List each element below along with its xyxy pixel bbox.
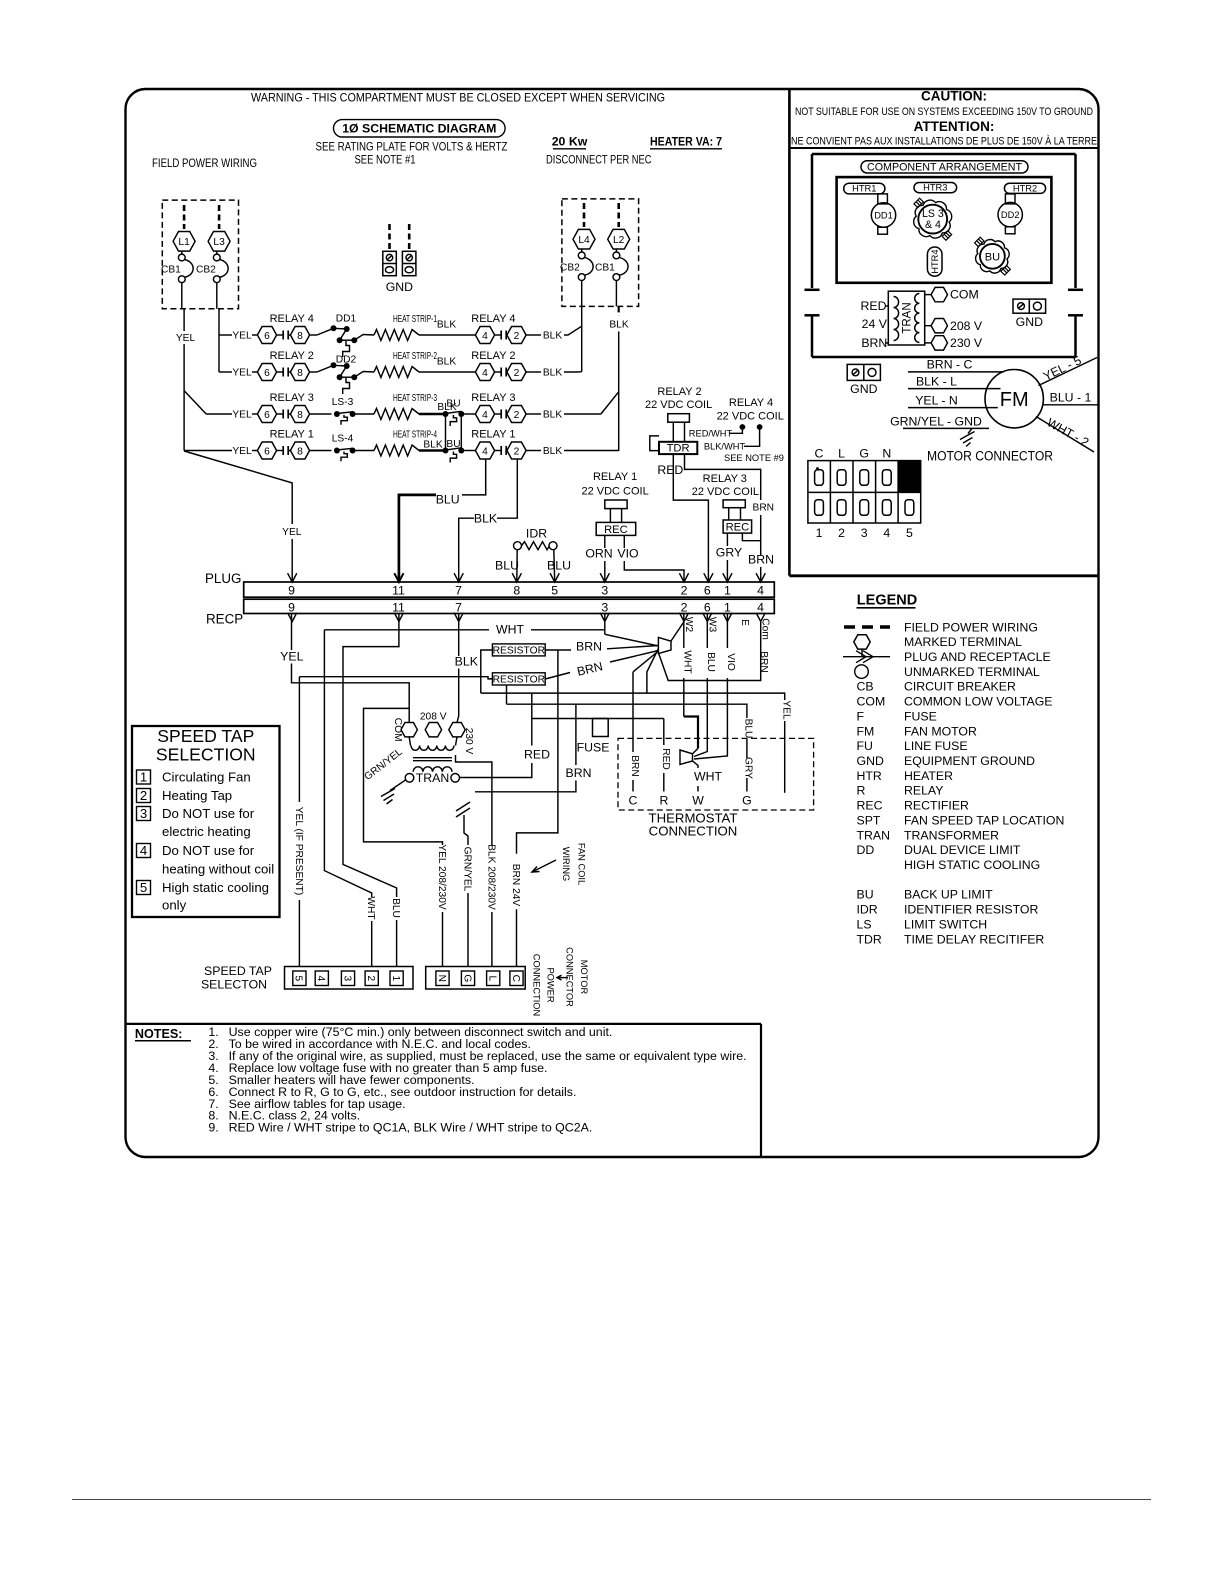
wire GRN/YEL to power connector G [463,815,465,827]
splice connector wedge [658,637,671,653]
svg-text:7: 7 [455,584,462,598]
svg-text:2: 2 [681,601,688,615]
wire [219,371,232,373]
svg-text:G: G [859,447,869,461]
component arrangement bracket box [805,154,1084,357]
svg-text:BLU - 1: BLU - 1 [1050,390,1092,404]
svg-text:ORN: ORN [585,547,612,561]
svg-text:NE CONVIENT PAS AUX INSTALLATI: NE CONVIENT PAS AUX INSTALLATIONS DE PLU… [791,135,1097,148]
svg-text:FM: FM [857,724,875,738]
svg-text:6: 6 [704,584,711,598]
svg-text:RELAY 1: RELAY 1 [270,429,314,441]
svg-text:BLU: BLU [495,559,519,573]
wire WHT - 2 [1036,417,1094,453]
svg-text:GRN/YEL - GND: GRN/YEL - GND [890,414,982,428]
dual device limit DD2 [1005,194,1015,204]
svg-text:4: 4 [315,975,326,981]
svg-text:5: 5 [293,975,304,981]
svg-text:WHT: WHT [681,650,692,673]
circuit breaker CB2 [213,254,220,261]
terminal 8 [290,364,309,381]
wire WHT from pin3 line to speed tap 2 [324,630,371,897]
wire YEL from recp 9 [291,614,293,651]
svg-text:COMMON LOW VOLTAGE: COMMON LOW VOLTAGE [904,695,1052,709]
svg-text:& 4: & 4 [925,219,941,231]
svg-text:FAN MOTOR: FAN MOTOR [904,724,977,738]
resistor block 2 [492,673,545,685]
circuit breaker CB1 [178,254,185,261]
svg-text:EQUIPMENT GROUND: EQUIPMENT GROUND [904,754,1035,768]
svg-text:YEL: YEL [232,446,252,457]
svg-text:RELAY 4: RELAY 4 [729,397,773,409]
svg-text:WARNING - THIS COMPARTMENT MUS: WARNING - THIS COMPARTMENT MUST BE CLOSE… [251,91,665,105]
svg-text:4: 4 [482,410,488,421]
svg-text:POWER: POWER [546,967,556,1002]
svg-text:BLU: BLU [705,652,716,672]
svg-text:RED: RED [660,748,671,770]
wire diagonal to relay 3 right [601,392,619,414]
svg-text:Do NOT use for: Do NOT use for [162,843,255,858]
wire com/brn from recp 4 to splice [659,622,761,681]
svg-text:BLK: BLK [543,331,562,342]
wire [219,334,232,336]
terminal 6 [257,442,276,459]
svg-text:4: 4 [757,584,764,598]
recp outgoing arrows [288,613,297,622]
svg-text:208 V: 208 V [420,712,447,723]
svg-text:20 Kw: 20 Kw [552,135,588,149]
svg-text:RELAY 1: RELAY 1 [471,429,515,441]
svg-text:IDR: IDR [526,527,547,541]
rectifier REC (relay 3) [723,520,752,533]
svg-text:RELAY 1: RELAY 1 [593,471,637,483]
wire diagonal pin3 to splice [605,634,659,646]
svg-text:3: 3 [861,526,868,540]
svg-text:BLK: BLK [543,368,562,379]
svg-text:FAN SPEED TAP LOCATION: FAN SPEED TAP LOCATION [904,813,1064,827]
svg-text:8: 8 [297,410,303,421]
terminal 2 [507,406,526,423]
svg-text:4: 4 [883,526,890,540]
svg-text:R: R [660,793,669,807]
relay row RELAY 4 (heat strip 1) [219,313,562,357]
svg-text:WIRING: WIRING [561,847,571,882]
svg-text:RESISTOR: RESISTOR [493,675,545,686]
svg-text:GRY: GRY [716,546,742,560]
svg-text:HEATER: HEATER [904,769,953,783]
svg-text:only: only [162,898,187,913]
RIGHT PANEL [791,89,1098,540]
svg-text:L4: L4 [578,235,590,246]
wire ORN to plug 3 [604,535,606,548]
svg-text:UNMARKED TERMINAL: UNMARKED TERMINAL [904,665,1040,679]
wire diagonal to plug 9 [184,451,292,524]
svg-text:MOTOR CONNECTOR: MOTOR CONNECTOR [927,449,1053,464]
svg-text:BRN: BRN [861,336,887,350]
svg-text:1: 1 [140,769,147,784]
wire relay4 row to right bus [564,326,582,335]
svg-text:DD: DD [857,843,875,857]
svg-text:CIRCUIT BREAKER: CIRCUIT BREAKER [904,680,1016,694]
svg-text:HIGH STATIC COOLING: HIGH STATIC COOLING [904,858,1040,872]
svg-text:N: N [436,975,447,982]
wire relay2 row to right bus [564,371,582,373]
relay row RELAY 3 (heat strip 3) [206,392,562,451]
svg-text:1Ø SCHEMATIC DIAGRAM: 1Ø SCHEMATIC DIAGRAM [342,121,496,135]
circuit breaker CB1 right [613,252,620,259]
svg-text:PLUG: PLUG [205,571,241,586]
svg-text:GND: GND [850,382,877,396]
terminal 6 [257,327,276,344]
time delay rectifier TDR [650,436,659,451]
svg-text:BLK: BLK [543,410,562,421]
svg-text:HEAT STRIP-2: HEAT STRIP-2 [393,351,437,362]
svg-text:6: 6 [264,410,270,421]
wire BLU from recp 11 to speed tap 1 [343,614,399,898]
gnd terminal block 2 [402,251,416,275]
svg-text:5: 5 [140,880,147,895]
wire [184,450,232,452]
svg-text:22 VDC COIL: 22 VDC COIL [717,411,784,423]
svg-text:G: G [742,793,752,807]
wire GRY to plug 1 [726,533,728,546]
svg-text:TIME DELAY RECITIFER: TIME DELAY RECITIFER [904,932,1044,946]
svg-text:L1: L1 [178,237,190,248]
wire bus to YEL right [481,693,785,700]
ground terminal pair upper [1013,299,1046,313]
svg-text:YEL - N: YEL - N [915,393,958,407]
component layout box [837,177,1052,283]
wire relay3 row to BLK bus [564,413,601,415]
svg-text:PLUG AND RECEPTACLE: PLUG AND RECEPTACLE [904,650,1051,664]
terminal L [487,971,500,986]
terminal 230 V [925,342,931,344]
terminal 8 [290,406,309,423]
svg-text:E: E [739,619,750,626]
receptacle strip [244,599,775,613]
svg-text:Circulating Fan: Circulating Fan [162,769,251,784]
heater HTR4 [927,247,942,276]
relay contact right [495,334,502,336]
svg-text:3: 3 [601,601,608,615]
svg-text:9: 9 [288,601,295,615]
svg-text:BLU: BLU [436,492,460,506]
svg-text:24 V: 24 V [862,317,888,331]
svg-text:6: 6 [264,331,270,342]
svg-text:FU: FU [857,739,873,753]
svg-text:RED Wire / WHT stripe to QC1A,: RED Wire / WHT stripe to QC1A, BLK Wire … [229,1121,593,1135]
field wire stub L4 [583,203,586,227]
terminal COM [925,294,931,296]
BLK field wire from CB1 right [618,306,620,316]
svg-text:YEL: YEL [282,527,302,538]
limit switch LS 3 & 4 [914,200,952,238]
svg-text:SELECTON: SELECTON [201,978,267,992]
wire CB2 bus down to relay rows 1-2 [218,309,220,372]
plug pin numbers [288,584,764,598]
wire RED from TRAN to fuse bus [460,763,532,778]
svg-text:RED: RED [657,463,683,477]
terminal 4 [475,442,494,459]
wire BRN from TRAN [575,704,577,765]
svg-text:2: 2 [838,526,845,540]
svg-text:RELAY 2: RELAY 2 [471,350,515,362]
terminal 6 [257,406,276,423]
tap terminal 4 [315,971,328,986]
svg-text:2: 2 [140,788,147,803]
svg-text:W: W [692,793,704,807]
back up limit BU [976,240,1010,274]
svg-text:4: 4 [482,331,488,342]
svg-text:BLK: BLK [437,320,456,331]
terminal 2 [507,327,526,344]
svg-text:NOTES:: NOTES: [135,1027,183,1041]
wire WHT from recp 3 [604,614,606,635]
svg-text:BLK: BLK [609,320,628,331]
svg-text:IDR: IDR [857,903,878,917]
svg-text:22 VDC COIL: 22 VDC COIL [581,485,648,497]
terminal 2 [507,442,526,459]
svg-text:DISCONNECT PER NEC: DISCONNECT PER NEC [546,153,652,167]
svg-text:4: 4 [482,446,488,457]
svg-text:WHT: WHT [496,623,524,637]
svg-text:CB1: CB1 [161,265,181,276]
wire BLU to plug 5 [553,550,556,581]
svg-text:RELAY 2: RELAY 2 [270,350,314,362]
heater HTR1 [844,183,885,194]
svg-text:3: 3 [601,584,608,598]
schematic stadium [334,120,506,137]
relay row RELAY 1 (heat strip 4) [184,429,562,463]
svg-text:C: C [629,793,638,807]
svg-text:HEAT STRIP-3: HEAT STRIP-3 [393,393,437,404]
svg-text:GND: GND [857,754,884,768]
wire bus to G [507,704,747,718]
terminal 4 [475,364,494,381]
svg-text:CB2: CB2 [196,265,216,276]
svg-text:YEL: YEL [280,649,303,663]
relay contact [277,371,284,373]
caution panel bottom border [789,574,1098,577]
tap terminal 5 [293,971,306,986]
svg-text:F: F [857,709,865,723]
svg-text:RELAY 3: RELAY 3 [270,392,314,404]
svg-text:4: 4 [482,368,488,379]
circuit breaker CB2 right [578,252,585,259]
svg-text:BRN: BRN [753,503,775,514]
svg-text:GRY: GRY [743,757,754,779]
svg-text:COM: COM [950,288,979,302]
svg-text:208 V: 208 V [950,319,983,333]
svg-text:TRAN: TRAN [416,771,449,785]
terminal L4 [573,229,595,249]
ground terminal pair lower [847,364,880,380]
left YEL bus from CB1 [183,309,185,331]
svg-text:TRAN: TRAN [857,828,890,842]
svg-text:BLK/WHT: BLK/WHT [704,442,746,452]
svg-text:DUAL DEVICE LIMIT: DUAL DEVICE LIMIT [904,843,1021,857]
wire COM tap to YEL [299,683,409,723]
svg-text:G: G [461,974,472,982]
svg-text:22 VDC COIL: 22 VDC COIL [645,399,712,411]
svg-text:VIO: VIO [617,547,638,561]
component arrangement stadium [861,161,1028,173]
wire from splice down [647,649,659,694]
tap terminal 3 [341,971,354,986]
svg-text:MOTOR: MOTOR [579,960,589,995]
terminal N [436,971,449,986]
svg-text:N: N [882,447,891,461]
svg-text:1: 1 [816,526,823,540]
wire BLK 208/230V to power connector L [456,755,492,845]
svg-text:BLK: BLK [474,511,498,525]
svg-text:BU: BU [985,251,1000,263]
svg-text:SEE RATING PLATE FOR VOLTS & H: SEE RATING PLATE FOR VOLTS & HERTZ [316,140,508,154]
svg-text:REC: REC [857,799,883,813]
svg-text:COMPONENT ARRANGEMENT: COMPONENT ARRANGEMENT [867,161,1022,173]
svg-text:COM: COM [857,695,886,709]
svg-text:YEL: YEL [781,700,792,720]
svg-text:YEL: YEL [232,368,252,379]
svg-text:9: 9 [288,584,295,598]
svg-text:BLK: BLK [543,446,562,457]
svg-text:BLK 208/230V: BLK 208/230V [485,844,496,910]
svg-text:BRN: BRN [758,651,769,673]
svg-text:CB: CB [857,680,874,694]
svg-text:NOT SUITABLE FOR USE ON SYSTEM: NOT SUITABLE FOR USE ON SYSTEMS EXCEEDIN… [795,106,1093,118]
svg-text:LS: LS [857,917,872,931]
dual device limit DD1 [878,194,888,204]
svg-text:HTR3: HTR3 [923,183,947,193]
svg-text:1: 1 [724,584,731,598]
primary coil [411,746,454,751]
tap terminal 2 [365,971,378,986]
wire BLU to plug 8 [516,550,518,581]
svg-text:REC: REC [726,522,750,534]
svg-text:1: 1 [390,975,401,981]
svg-text:BRN 24V: BRN 24V [510,864,521,907]
svg-text:HTR1: HTR1 [852,184,876,194]
terminal C [510,971,523,986]
field power wiring symbol [844,625,890,628]
svg-text:8: 8 [513,584,520,598]
svg-text:RELAY 3: RELAY 3 [703,473,747,485]
left field power dashed box [162,200,238,309]
wire BLU - 1 [1043,404,1098,406]
svg-text:4: 4 [757,601,764,615]
gnd terminal block 1 [383,251,397,275]
svg-text:1: 1 [724,601,731,615]
rectifier REC (relay 1) [596,522,636,535]
svg-text:R: R [857,784,866,798]
wire to thermostat R [663,719,665,746]
svg-text:HEAT STRIP-1: HEAT STRIP-1 [393,314,437,325]
svg-text:RELAY 3: RELAY 3 [471,392,515,404]
wire BLK from relay1 terminal 2 to plug 7 [497,460,517,519]
svg-text:230 V: 230 V [950,336,983,350]
fuse F [593,719,609,737]
relay contact right [495,371,502,373]
wire diagonal to relay 3 [184,391,206,414]
svg-text:LIMIT SWITCH: LIMIT SWITCH [904,917,987,931]
svg-text:RELAY 4: RELAY 4 [471,313,515,325]
svg-text:FIELD POWER WIRING: FIELD POWER WIRING [152,156,257,170]
svg-text:5: 5 [551,584,558,598]
SPEEDTAP BOX [132,726,280,917]
svg-text:YEL: YEL [176,333,196,344]
svg-text:BLK: BLK [423,440,442,451]
relay contact [277,334,284,336]
svg-text:RESISTOR: RESISTOR [493,646,545,657]
notes box top [126,1023,762,1025]
svg-text:L: L [487,975,498,981]
wire REC to BRN bus [742,533,760,541]
svg-text:BACK UP LIMIT: BACK UP LIMIT [904,888,993,902]
svg-text:LS-3: LS-3 [332,397,354,408]
svg-text:2: 2 [681,584,688,598]
svg-text:C: C [510,975,521,982]
svg-text:DD1: DD1 [336,314,357,325]
relay row RELAY 2 (heat strip 2) [219,350,562,394]
svg-text:7: 7 [455,601,462,615]
svg-text:BLK: BLK [455,654,479,668]
svg-text:TRANSFORMER: TRANSFORMER [904,828,999,842]
resistor block 1 [492,644,545,656]
svg-text:BLK - L: BLK - L [916,374,957,388]
svg-text:6: 6 [704,601,711,615]
NOTES [135,1025,747,1135]
secondary coil [413,767,452,772]
tap terminal 1 [390,971,403,986]
notes box right [760,1024,762,1157]
unmarked terminal symbol [855,665,869,679]
LEGEND [843,593,1064,947]
svg-text:GND: GND [386,280,413,294]
terminal 208 V [925,325,931,327]
heater HTR2 [1004,183,1045,193]
svg-text:HTR2: HTR2 [1013,183,1037,193]
wire BRN 24V to power connector C [517,650,558,854]
thermostat connection dashed box [618,738,814,810]
svg-text:TDR: TDR [857,932,882,946]
svg-text:2: 2 [514,446,520,457]
relay contact right [495,450,502,452]
svg-text:8: 8 [297,331,303,342]
svg-text:FAN COIL: FAN COIL [577,843,587,885]
svg-text:Do NOT use for: Do NOT use for [162,806,255,821]
wire YEL (IF PRESENT) to speed tap 5 [298,677,300,802]
svg-text:RELAY 4: RELAY 4 [270,313,314,325]
wire [206,413,232,415]
svg-text:SEE NOTE #9: SEE NOTE #9 [724,453,784,463]
svg-text:MARKED TERMINAL: MARKED TERMINAL [904,635,1022,649]
thermostat splice [680,750,693,764]
svg-text:8: 8 [297,446,303,457]
terminal G [461,971,474,986]
plug and receptacle symbol [843,656,890,658]
svg-text:TDR: TDR [667,443,690,455]
wire YEL 208/230V to power connector N [364,708,443,845]
wire VIO to plug 2 [623,535,625,548]
svg-text:BRN: BRN [576,639,602,653]
wire BRN resistor2 to splice diagonal [545,673,570,680]
terminal 4 [475,406,494,423]
svg-text:Heating Tap: Heating Tap [162,788,232,803]
svg-text:CB2: CB2 [560,262,580,273]
svg-text:L: L [838,447,845,461]
terminal 6 [257,364,276,381]
svg-text:BRN - C: BRN - C [927,358,973,372]
